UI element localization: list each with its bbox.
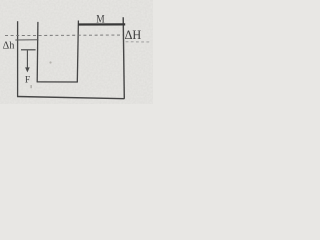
small piston bar in narrow tube: [21, 49, 36, 51]
piston M (thick bar): [78, 23, 125, 25]
scan speck: [49, 61, 51, 63]
force arrow shaft: [26, 50, 28, 68]
wire: outer left wall (narrow tube left wall): [17, 21, 19, 97]
wire: outer right wall: [123, 17, 124, 99]
wire: vessel bottom: [17, 97, 124, 99]
liquid level line in narrow tube: [15, 39, 38, 41]
dashed reference level line: [5, 34, 123, 37]
wire: narrow tube right wall: [36, 22, 39, 82]
wire: shoulder between tube and wide vessel: [37, 81, 78, 83]
svg-text:M: M: [96, 14, 104, 26]
svg-text:F: F: [25, 76, 30, 86]
scan speck: [31, 85, 32, 88]
wire: wide vessel left wall: [77, 21, 78, 83]
svg-text:Δh: Δh: [3, 41, 16, 52]
paper background: [0, 0, 153, 104]
dashed mark right of wall (original piston level): [126, 41, 152, 43]
force arrow head: [25, 67, 30, 72]
svg-text:ΔH: ΔH: [125, 27, 142, 42]
